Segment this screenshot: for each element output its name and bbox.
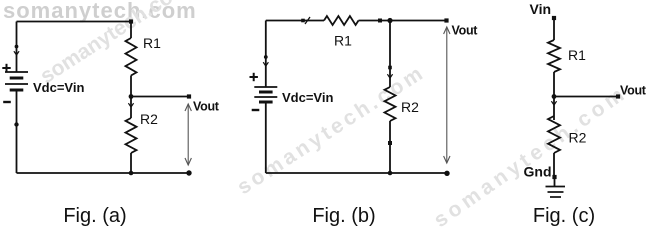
svg-text:R2: R2 [401, 99, 419, 115]
svg-text:Vdc=Vin: Vdc=Vin [33, 80, 84, 95]
svg-text:R1: R1 [334, 33, 352, 49]
svg-text:Fig. (a): Fig. (a) [63, 205, 126, 227]
svg-text:R1: R1 [568, 47, 586, 63]
svg-text:Fig. (c): Fig. (c) [533, 205, 595, 227]
svg-text:Fig. (b): Fig. (b) [312, 205, 375, 227]
svg-text:R2: R2 [569, 130, 587, 146]
svg-text:R2: R2 [140, 111, 158, 127]
svg-text:Vin: Vin [530, 1, 552, 17]
svg-text:Vout: Vout [193, 100, 220, 114]
svg-text:Gnd: Gnd [524, 164, 552, 180]
svg-text:Vout: Vout [452, 23, 479, 37]
svg-text:Vdc=Vin: Vdc=Vin [282, 90, 333, 105]
svg-text:Vout: Vout [620, 84, 647, 98]
svg-text:R1: R1 [143, 35, 161, 51]
